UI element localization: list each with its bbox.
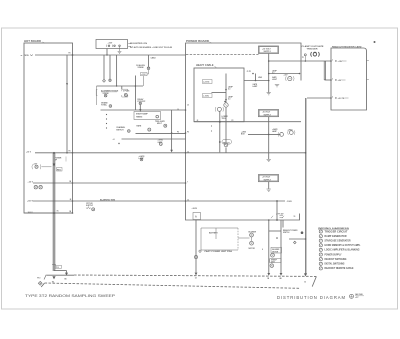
svg-text:SWITCH: SWITCH <box>283 232 290 234</box>
svg-text:SUPPLY: SUPPLY <box>264 51 272 53</box>
svg-text:+15V: +15V <box>338 61 344 63</box>
svg-text:SUPPLY: SUPPLY <box>264 180 272 182</box>
svg-text:+100V: +100V <box>192 208 198 210</box>
svg-text:TOTAL: TOTAL <box>101 104 108 107</box>
svg-text:+ 25 V: + 25 V <box>28 182 34 184</box>
svg-text:SUPPLY: SUPPLY <box>264 115 272 117</box>
svg-text:LOGIC AMPLIFIER & BLANKING: LOGIC AMPLIFIER & BLANKING <box>325 249 360 252</box>
svg-text:6.3: 6.3 <box>228 88 230 90</box>
svg-text:P10: P10 <box>56 267 59 269</box>
svg-text:J1 P1: J1 P1 <box>247 71 251 73</box>
svg-text:POWER BOARD: POWER BOARD <box>186 40 209 43</box>
svg-text:A: A <box>195 215 197 218</box>
svg-text:BLANKING TIME: BLANKING TIME <box>100 198 116 201</box>
svg-text:6.3: 6.3 <box>228 98 230 100</box>
svg-text:MOTOR: MOTOR <box>272 251 279 253</box>
svg-text:STAGE: STAGE <box>138 66 145 69</box>
svg-text:P10: P10 <box>37 278 40 280</box>
svg-text:POWER SUPPLY: POWER SUPPLY <box>325 254 342 256</box>
svg-text:TRIGGER CIRCUIT: TRIGGER CIRCUIT <box>325 231 349 233</box>
svg-text:(-15V): (-15V) <box>204 96 210 98</box>
svg-text:(+15V): (+15V) <box>204 82 210 84</box>
svg-text:3 PULS: 3 PULS <box>123 91 130 93</box>
svg-text:B5: B5 <box>65 279 67 281</box>
svg-text:-100V: -100V <box>287 201 293 203</box>
svg-text:6.3: 6.3 <box>272 73 274 75</box>
svg-text:TIMING: TIMING <box>136 116 143 118</box>
svg-text:J5: J5 <box>187 105 189 107</box>
svg-text:P6: P6 <box>177 132 179 134</box>
svg-text:P1: P1 <box>302 57 304 59</box>
svg-text:STAIRCASE GENERATOR: STAIRCASE GENERATOR <box>325 240 351 243</box>
svg-text:+5V: +5V <box>338 80 342 82</box>
svg-text:16: 16 <box>304 281 306 283</box>
svg-text:START RAMP: START RAMP <box>136 113 148 116</box>
svg-text:HOT BOARD: HOT BOARD <box>24 40 41 43</box>
svg-text:+15V: +15V <box>108 42 113 44</box>
svg-text:BATTERY: BATTERY <box>209 231 218 234</box>
svg-text:SUPPLY: SUPPLY <box>86 205 94 207</box>
svg-text:J6: J6 <box>177 109 179 111</box>
svg-text:HEAVY CABLE: HEAVY CABLE <box>196 64 214 67</box>
svg-text:SWITCH: SWITCH <box>116 129 124 131</box>
svg-text:J8: J8 <box>70 199 72 201</box>
svg-text:MOTOR: MOTOR <box>249 248 256 250</box>
svg-text:BLOWER: BLOWER <box>249 231 257 233</box>
svg-text:-27 VOLT: -27 VOLT <box>262 177 271 179</box>
svg-text:J2: J2 <box>197 120 199 122</box>
svg-text:INT ALTS ON BOARDS + LINE VOLT: INT ALTS ON BOARDS + LINE VOLT PLUG-IN <box>130 46 173 49</box>
svg-text:DIGITAL SWITCHING: DIGITAL SWITCHING <box>325 263 345 266</box>
svg-text:-100 V: -100 V <box>27 212 33 214</box>
svg-text:P2: P2 <box>232 120 234 122</box>
svg-text:REG: REG <box>57 169 61 171</box>
svg-text:+15 V: +15 V <box>26 152 32 154</box>
svg-text:RATE: RATE <box>137 125 143 128</box>
svg-text:TRIGGER: TRIGGER <box>307 49 319 51</box>
svg-text:READOUT REMOTE CABLE: READOUT REMOTE CABLE <box>325 267 354 270</box>
svg-text:BLOWER: BLOWER <box>272 249 280 251</box>
svg-text:DISTRIBUTION DIAGRAM: DISTRIBUTION DIAGRAM <box>277 295 346 300</box>
svg-text:+5 LTS: +5 LTS <box>338 98 345 100</box>
svg-text:READOUT REGISTER CARD: READOUT REGISTER CARD <box>332 45 362 48</box>
svg-text:12: 12 <box>187 200 189 202</box>
svg-text:+100 V: +100 V <box>27 201 34 203</box>
svg-text:PICKOFF: PICKOFF <box>138 101 147 103</box>
svg-text:HORIZ MEMORY & OUTPUT AMPL: HORIZ MEMORY & OUTPUT AMPL <box>325 244 362 247</box>
svg-text:-10 VOLT: -10 VOLT <box>262 112 271 114</box>
svg-text:15: 15 <box>294 216 296 218</box>
svg-text:UNIT: UNIT <box>271 261 275 263</box>
svg-text:MOUNTED ON: MOUNTED ON <box>130 43 147 45</box>
svg-text:TYPE 3T2 RANDOM SAMPLING SWEEP: TYPE 3T2 RANDOM SAMPLING SWEEP <box>25 294 116 298</box>
svg-text:P6: P6 <box>187 131 189 133</box>
svg-text:+15 VOLT: +15 VOLT <box>262 48 271 50</box>
svg-text:SWEEP: SWEEP <box>271 260 278 262</box>
svg-text:TRIG: TRIG <box>222 118 227 120</box>
svg-text:16: 16 <box>187 151 189 153</box>
svg-text:READOUT SWITCHING: READOUT SWITCHING <box>325 258 347 261</box>
svg-text:+ 15 V: + 15 V <box>20 55 34 57</box>
svg-text:PART POWER UNIT PRA: PART POWER UNIT PRA <box>205 250 233 253</box>
svg-text:RAMP GENERATOR: RAMP GENERATOR <box>325 235 347 238</box>
